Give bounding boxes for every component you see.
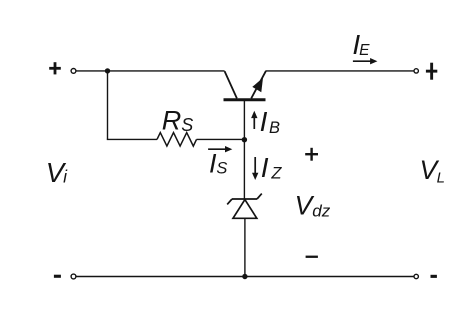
wire top rail right xyxy=(265,70,414,72)
label Vdz plus xyxy=(305,148,318,161)
input terminal top-left (open circle) xyxy=(71,69,76,74)
zener diode Dz cathode bar xyxy=(227,194,262,205)
terminal minus label (output -) xyxy=(431,275,437,278)
current arrow IE xyxy=(353,58,378,64)
wire resistor to base node xyxy=(197,138,246,140)
node junction dot bottom xyxy=(242,274,247,279)
node junction dot top-left xyxy=(105,68,110,73)
terminal plus label (output +) xyxy=(426,63,437,80)
output terminal top-right (open circle) xyxy=(414,69,418,73)
node junction dot base/Rs xyxy=(242,137,247,142)
current arrow IZ (down) xyxy=(252,157,258,180)
transistor Q1 base bar xyxy=(224,98,266,101)
transistor Q1 emitter arrowhead xyxy=(252,78,263,92)
transistor Q1 emitter line xyxy=(251,71,266,98)
terminal plus label (input +) xyxy=(49,62,61,74)
zener diode Dz triangle (anode) xyxy=(233,200,257,219)
label Vdz minus xyxy=(306,256,318,258)
wire zener to bottom rail xyxy=(244,218,246,276)
current arrow IS xyxy=(208,146,232,152)
current arrow IB (up) xyxy=(251,111,257,129)
wire bottom rail xyxy=(76,276,414,278)
output terminal bottom-right (open circle) xyxy=(414,274,418,278)
wire base vertical xyxy=(243,100,245,199)
terminal minus label (input -) xyxy=(54,275,61,278)
wire top rail left xyxy=(76,70,225,72)
transistor Q1 collector line xyxy=(225,71,237,98)
input terminal bottom-left (open circle) xyxy=(71,274,76,279)
wire horizontal to resistor xyxy=(107,138,157,140)
resistor RS zigzag xyxy=(157,133,197,147)
wire vertical from top node down to Rs xyxy=(107,71,109,139)
